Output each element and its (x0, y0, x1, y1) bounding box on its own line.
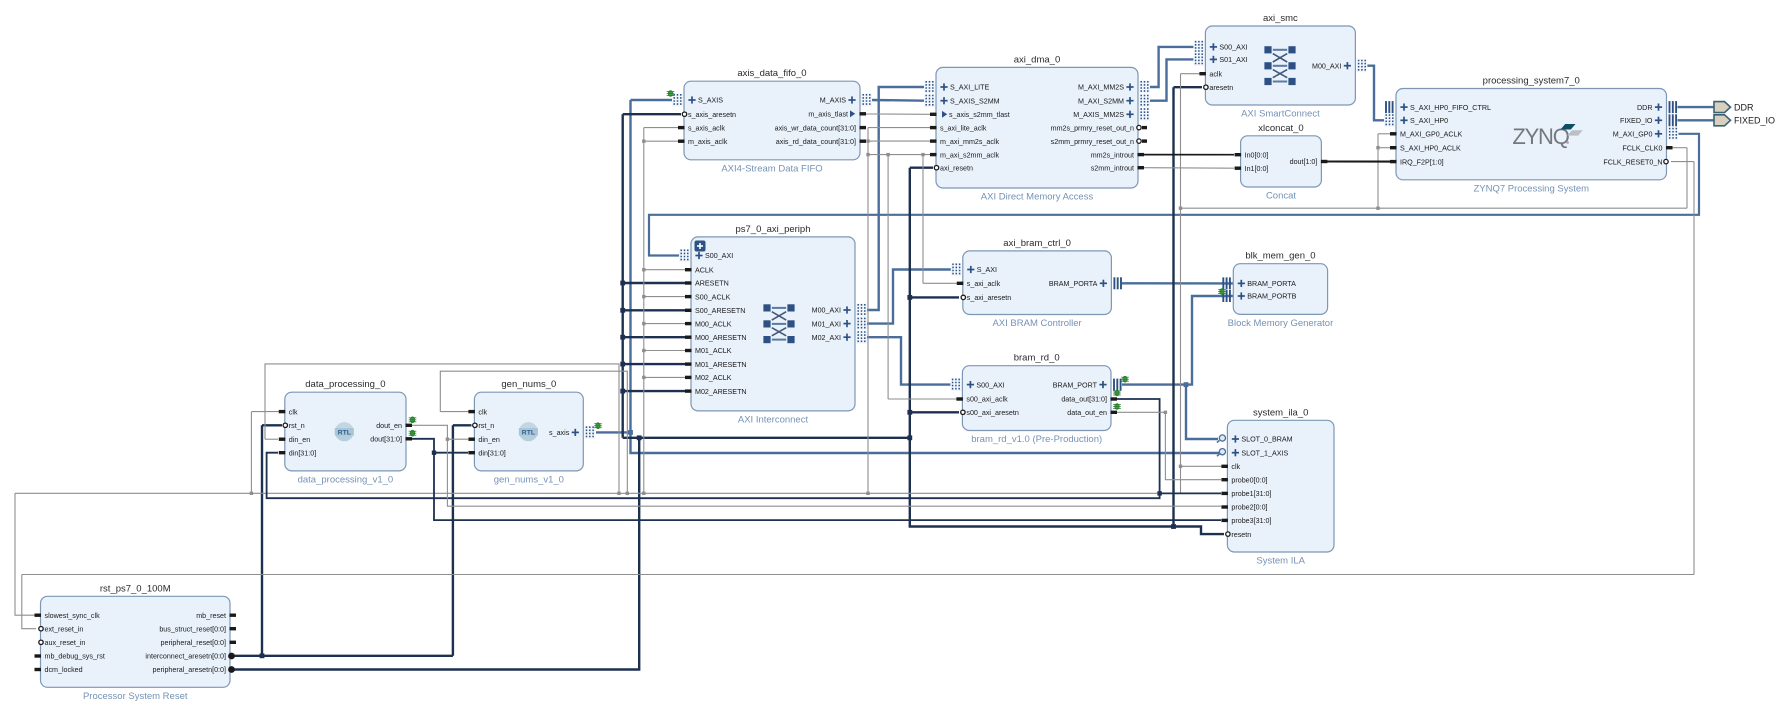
svg-text:axis_data_fifo_0: axis_data_fifo_0 (737, 68, 806, 79)
svg-text:probe3[31:0]: probe3[31:0] (1231, 517, 1271, 525)
svg-text:S01_AXI: S01_AXI (1219, 56, 1247, 64)
svg-text:dcm_locked: dcm_locked (45, 666, 83, 674)
svg-text:data_processing_0: data_processing_0 (305, 379, 385, 390)
svg-text:s_axis: s_axis (549, 429, 570, 437)
svg-text:RTL: RTL (522, 429, 535, 436)
svg-text:slowest_sync_clk: slowest_sync_clk (45, 612, 101, 620)
svg-text:FIXED_IO: FIXED_IO (1620, 117, 1653, 125)
svg-text:dout[1:0]: dout[1:0] (1290, 158, 1318, 166)
svg-text:din[31:0]: din[31:0] (478, 449, 505, 457)
svg-text:aresetn: aresetn (1209, 84, 1233, 92)
svg-text:dout[31:0]: dout[31:0] (370, 436, 402, 444)
svg-text:bram_rd_v1.0 (Pre-Production): bram_rd_v1.0 (Pre-Production) (971, 434, 1102, 445)
svg-text:rst_n: rst_n (289, 422, 305, 430)
svg-text:m_axis_aclk: m_axis_aclk (688, 138, 728, 146)
svg-text:S_AXI_HP0_ACLK: S_AXI_HP0_ACLK (1400, 144, 1461, 152)
svg-text:s_axis_s2mm_tlast: s_axis_s2mm_tlast (949, 111, 1010, 119)
svg-text:M02_AXI: M02_AXI (812, 334, 841, 342)
svg-text:Concat: Concat (1266, 191, 1296, 202)
svg-text:s00_axi_aresetn: s00_axi_aresetn (966, 409, 1018, 417)
svg-text:clk: clk (478, 408, 487, 416)
svg-text:s00_axi_aclk: s00_axi_aclk (966, 396, 1008, 404)
svg-text:clk: clk (1231, 463, 1240, 471)
svg-text:SLOT_1_AXIS: SLOT_1_AXIS (1241, 449, 1288, 457)
svg-text:aux_reset_in: aux_reset_in (45, 639, 86, 647)
svg-text:ps7_0_axi_periph: ps7_0_axi_periph (735, 224, 810, 235)
svg-text:data_processing_v1_0: data_processing_v1_0 (298, 474, 394, 485)
svg-text:S_AXI: S_AXI (977, 266, 997, 274)
svg-text:s_axis_aclk: s_axis_aclk (688, 124, 725, 132)
svg-text:AXI Direct Memory Access: AXI Direct Memory Access (981, 192, 1094, 203)
svg-text:M01_ACLK: M01_ACLK (695, 347, 732, 355)
svg-text:probe2[0:0]: probe2[0:0] (1231, 504, 1267, 512)
svg-text:axi_bram_ctrl_0: axi_bram_ctrl_0 (1003, 238, 1071, 249)
svg-text:M02_ARESETN: M02_ARESETN (695, 388, 747, 396)
svg-text:probe0[0:0]: probe0[0:0] (1231, 476, 1267, 484)
svg-text:axi_smc: axi_smc (1263, 13, 1298, 24)
svg-text:axi_dma_0: axi_dma_0 (1014, 54, 1060, 65)
svg-text:M02_ACLK: M02_ACLK (695, 374, 732, 382)
svg-text:axis_wr_data_count[31:0]: axis_wr_data_count[31:0] (775, 124, 856, 132)
svg-text:m_axi_mm2s_aclk: m_axi_mm2s_aclk (940, 138, 1000, 146)
svg-text:axis_rd_data_count[31:0]: axis_rd_data_count[31:0] (776, 138, 856, 146)
svg-text:peripheral_aresetn[0:0]: peripheral_aresetn[0:0] (153, 666, 226, 674)
svg-text:RTL: RTL (338, 429, 351, 436)
svg-text:M_AXIS_MM2S: M_AXIS_MM2S (1073, 111, 1124, 119)
svg-text:aclk: aclk (1209, 70, 1222, 78)
svg-text:mm2s_introut: mm2s_introut (1091, 151, 1134, 159)
svg-text:DDR: DDR (1734, 102, 1754, 112)
svg-text:din[31:0]: din[31:0] (289, 449, 316, 457)
svg-text:FCLK_RESET0_N: FCLK_RESET0_N (1603, 158, 1662, 166)
svg-text:gen_nums_0: gen_nums_0 (501, 379, 556, 390)
svg-text:gen_nums_v1_0: gen_nums_v1_0 (494, 474, 564, 485)
svg-text:probe1[31:0]: probe1[31:0] (1231, 490, 1271, 498)
svg-text:data_out_en: data_out_en (1067, 409, 1107, 417)
svg-text:Block Memory Generator: Block Memory Generator (1228, 318, 1334, 329)
svg-text:axi_resetn: axi_resetn (940, 164, 973, 172)
svg-text:BRAM_PORT: BRAM_PORT (1053, 381, 1098, 389)
svg-text:S_AXI_LITE: S_AXI_LITE (950, 84, 990, 92)
svg-text:IRQ_F2P[1:0]: IRQ_F2P[1:0] (1400, 158, 1444, 166)
svg-text:blk_mem_gen_0: blk_mem_gen_0 (1245, 251, 1315, 262)
svg-text:s2mm_introut: s2mm_introut (1091, 164, 1134, 172)
svg-text:din_en: din_en (289, 436, 310, 444)
svg-text:mb_debug_sys_rst: mb_debug_sys_rst (45, 653, 105, 661)
svg-text:S00_ACLK: S00_ACLK (695, 293, 731, 301)
svg-text:M00_ACLK: M00_ACLK (695, 320, 732, 328)
svg-text:s_axi_aclk: s_axi_aclk (967, 280, 1001, 288)
svg-text:s2mm_prmry_reset_out_n: s2mm_prmry_reset_out_n (1051, 138, 1134, 146)
svg-text:M01_ARESETN: M01_ARESETN (695, 361, 747, 369)
svg-text:BRAM_PORTB: BRAM_PORTB (1247, 293, 1296, 301)
svg-text:M_AXI_GP0: M_AXI_GP0 (1613, 131, 1653, 139)
svg-text:S00_AXI: S00_AXI (976, 381, 1004, 389)
svg-text:din_en: din_en (478, 436, 499, 444)
svg-text:SLOT_0_BRAM: SLOT_0_BRAM (1241, 436, 1292, 444)
svg-text:interconnect_aresetn[0:0]: interconnect_aresetn[0:0] (145, 653, 226, 661)
svg-text:resetn: resetn (1231, 531, 1251, 539)
svg-text:BRAM_PORTA: BRAM_PORTA (1247, 280, 1296, 288)
svg-text:processing_system7_0: processing_system7_0 (1483, 76, 1580, 87)
svg-text:ZYNQ7 Processing System: ZYNQ7 Processing System (1473, 183, 1589, 194)
svg-text:mb_reset: mb_reset (196, 612, 226, 620)
svg-text:ACLK: ACLK (695, 266, 714, 274)
svg-text:M_AXIS: M_AXIS (820, 97, 846, 105)
svg-text:mm2s_prmry_reset_out_n: mm2s_prmry_reset_out_n (1051, 124, 1134, 132)
svg-text:Processor System Reset: Processor System Reset (83, 691, 188, 702)
svg-text:AXI4-Stream Data FIFO: AXI4-Stream Data FIFO (721, 163, 822, 174)
svg-text:S_AXIS: S_AXIS (698, 97, 723, 105)
svg-text:rst_n: rst_n (478, 422, 494, 430)
svg-text:peripheral_reset[0:0]: peripheral_reset[0:0] (161, 639, 227, 647)
svg-text:In0[0:0]: In0[0:0] (1245, 151, 1269, 159)
svg-text:DDR: DDR (1637, 104, 1652, 112)
svg-text:M00_AXI: M00_AXI (1312, 62, 1341, 70)
svg-text:M00_AXI: M00_AXI (812, 307, 841, 315)
svg-text:ZYNQ: ZYNQ (1512, 124, 1569, 149)
svg-text:S00_ARESETN: S00_ARESETN (695, 307, 745, 315)
svg-text:In1[0:0]: In1[0:0] (1245, 165, 1269, 173)
svg-text:data_out[31:0]: data_out[31:0] (1061, 396, 1107, 404)
svg-text:AXI Interconnect: AXI Interconnect (738, 414, 809, 425)
svg-text:rst_ps7_0_100M: rst_ps7_0_100M (100, 583, 171, 594)
svg-text:FIXED_IO: FIXED_IO (1734, 116, 1775, 126)
svg-text:System ILA: System ILA (1256, 556, 1305, 567)
svg-text:dout_en: dout_en (376, 422, 402, 430)
svg-text:m_axis_tlast: m_axis_tlast (808, 111, 848, 119)
svg-text:BRAM_PORTA: BRAM_PORTA (1049, 280, 1098, 288)
svg-text:M_AXI_S2MM: M_AXI_S2MM (1078, 97, 1124, 105)
svg-text:M01_AXI: M01_AXI (812, 320, 841, 328)
svg-text:s_axi_lite_aclk: s_axi_lite_aclk (940, 124, 987, 132)
svg-text:M00_ARESETN: M00_ARESETN (695, 334, 747, 342)
svg-text:S00_AXI: S00_AXI (1219, 44, 1247, 52)
svg-text:ext_reset_in: ext_reset_in (45, 625, 84, 633)
svg-text:S00_AXI: S00_AXI (705, 252, 733, 260)
svg-text:bram_rd_0: bram_rd_0 (1014, 353, 1060, 364)
svg-text:system_ila_0: system_ila_0 (1253, 407, 1308, 418)
svg-text:ARESETN: ARESETN (695, 280, 729, 288)
svg-text:M_AXI_MM2S: M_AXI_MM2S (1078, 84, 1124, 92)
svg-text:xlconcat_0: xlconcat_0 (1258, 123, 1303, 134)
svg-text:AXI SmartConnect: AXI SmartConnect (1241, 109, 1320, 120)
svg-text:FCLK_CLK0: FCLK_CLK0 (1622, 144, 1662, 152)
svg-text:bus_struct_reset[0:0]: bus_struct_reset[0:0] (159, 625, 226, 633)
svg-text:s_axi_aresetn: s_axi_aresetn (967, 294, 1011, 302)
svg-text:S_AXIS_S2MM: S_AXIS_S2MM (950, 97, 1000, 105)
svg-text:s_axis_aresetn: s_axis_aresetn (688, 111, 736, 119)
svg-text:S_AXI_HP0: S_AXI_HP0 (1410, 117, 1448, 125)
svg-text:M_AXI_GP0_ACLK: M_AXI_GP0_ACLK (1400, 131, 1463, 139)
svg-text:AXI BRAM Controller: AXI BRAM Controller (992, 318, 1081, 329)
svg-text:m_axi_s2mm_aclk: m_axi_s2mm_aclk (940, 151, 1000, 159)
svg-text:S_AXI_HP0_FIFO_CTRL: S_AXI_HP0_FIFO_CTRL (1410, 104, 1491, 112)
svg-text:clk: clk (289, 408, 298, 416)
